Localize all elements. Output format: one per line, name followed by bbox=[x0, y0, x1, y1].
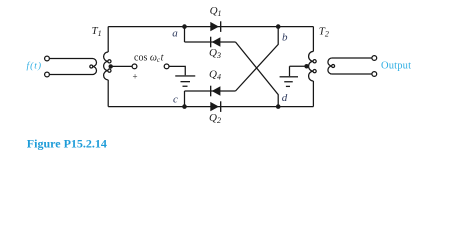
wire node c vertical bbox=[184, 91, 186, 107]
transformer T1 secondary winding bbox=[104, 52, 109, 80]
wire ground2 to T2 center tap bbox=[290, 65, 306, 67]
svg-text:a: a bbox=[172, 28, 178, 40]
wire cos right terminal to ground bbox=[169, 66, 185, 75]
svg-text:b: b bbox=[282, 31, 288, 43]
wire diagonal Q3 to d bbox=[236, 42, 279, 107]
ground cos source bar2 bbox=[181, 81, 191, 82]
diode Q1 bbox=[210, 22, 219, 31]
wire T2 secondary top lead bbox=[332, 57, 372, 59]
node d bbox=[276, 104, 281, 109]
wire top rail bbox=[108, 26, 313, 28]
wire f(t) top lead bbox=[49, 58, 92, 60]
wire Q3 row bbox=[185, 41, 236, 43]
wire Q4 row bbox=[185, 90, 236, 92]
diode Q3 bbox=[212, 37, 221, 46]
svg-text:f(t): f(t) bbox=[27, 60, 42, 71]
node b bbox=[276, 24, 281, 29]
wire diagonal Q4 to b bbox=[236, 27, 279, 91]
svg-text:c: c bbox=[173, 93, 178, 105]
svg-text:Output: Output bbox=[381, 60, 411, 71]
junction T1 center tap bbox=[109, 64, 113, 68]
svg-text:Figure P15.2.14: Figure P15.2.14 bbox=[27, 137, 107, 151]
wire T1 vertical bottom bbox=[107, 80, 109, 107]
terminal f(t) top bbox=[45, 56, 50, 61]
wire node a vertical bbox=[184, 27, 186, 42]
node a bbox=[182, 24, 187, 29]
transformer T2 secondary winding bbox=[328, 58, 332, 74]
ground T2 bar2 bbox=[284, 81, 293, 82]
ground cos source bar3 bbox=[183, 86, 188, 87]
junction T2 center tap bbox=[304, 64, 309, 69]
terminal cos left bbox=[132, 64, 137, 69]
wire f(t) bottom lead bbox=[49, 74, 92, 76]
terminal output bottom bbox=[372, 72, 377, 77]
wire T2 vertical top bbox=[312, 27, 314, 52]
diode Q4 bbox=[212, 86, 221, 95]
ground T2 bar3 bbox=[286, 86, 290, 87]
ground cos source bar1 bbox=[175, 75, 195, 76]
wire bottom rail bbox=[108, 106, 313, 108]
ground near T2 stem bbox=[289, 66, 291, 76]
wire T1 vertical top bbox=[107, 27, 109, 52]
wire center tap to cos source bbox=[111, 65, 132, 67]
ground T2 bar1 bbox=[280, 76, 298, 77]
svg-text:+: + bbox=[133, 71, 138, 81]
transformer T2 primary winding bbox=[309, 51, 314, 81]
transformer T1 primary winding bbox=[93, 59, 97, 75]
wire T2 secondary bottom lead bbox=[332, 73, 372, 75]
svg-text:d: d bbox=[282, 92, 288, 104]
terminal f(t) bottom bbox=[45, 72, 50, 77]
wire T2 vertical bottom bbox=[312, 81, 314, 107]
diode Q2 bbox=[210, 102, 219, 111]
node c bbox=[182, 104, 187, 109]
terminal cos right bbox=[164, 64, 169, 69]
terminal output top bbox=[372, 56, 377, 61]
